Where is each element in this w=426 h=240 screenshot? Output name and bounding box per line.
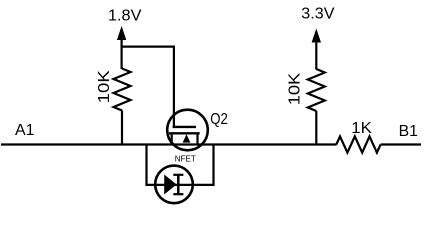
wire body-diode loop left vertical: [145, 144, 147, 187]
svg-text:A1: A1: [15, 122, 35, 139]
body diode cathode bar: [177, 174, 180, 195]
resistor 1K series zigzag: [336, 136, 380, 152]
body diode anode triangle: [164, 175, 176, 195]
svg-text:Q2: Q2: [210, 111, 228, 128]
body diode cathode bottom serif: [173, 193, 183, 195]
wire branch 1.8V to gate: [122, 45, 174, 47]
resistor 10K left pull-up zigzag: [114, 69, 131, 111]
wire 1.8V supply vertical (arrow to resistor): [120, 39, 122, 70]
svg-text:10K: 10K: [96, 70, 113, 103]
transistor Q2 source stub: [171, 133, 173, 144]
transistor Q2 channel bar: [169, 132, 200, 134]
transistor Q2 drain stub: [196, 133, 198, 144]
wire main rail right (1K resistor to node B1): [381, 143, 421, 145]
wire left resistor bottom lead: [121, 111, 123, 145]
wire body-diode loop horizontal: [147, 184, 214, 186]
wire 3.3V supply vertical (arrow to resistor): [315, 41, 317, 70]
svg-text:10K: 10K: [287, 72, 304, 105]
body diode cathode top serif: [173, 174, 183, 176]
svg-text:B1: B1: [399, 123, 418, 140]
svg-text:1.8V: 1.8V: [108, 8, 142, 25]
power arrow 3.3V: [312, 29, 321, 43]
transistor Q2 circle: [167, 110, 208, 151]
svg-text:3.3V: 3.3V: [301, 6, 335, 23]
power arrow 1.8V: [117, 26, 126, 40]
resistor 10K right pull-up zigzag: [308, 69, 325, 111]
wire gate vertical: [173, 46, 175, 128]
wire body-diode loop right vertical: [212, 144, 214, 187]
transistor Q2 bulk arrow: [183, 134, 191, 142]
body diode circle: [155, 166, 193, 204]
svg-text:NFET: NFET: [175, 154, 196, 163]
wire right resistor bottom lead: [315, 111, 317, 145]
svg-text:1K: 1K: [351, 120, 372, 137]
transistor Q2 gate bar: [173, 126, 196, 128]
wire main rail left (node A1 to 1K resistor): [1, 143, 337, 145]
